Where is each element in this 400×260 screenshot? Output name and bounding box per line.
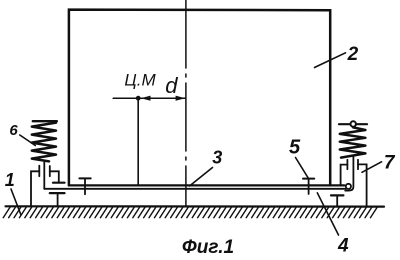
roller circle xyxy=(346,184,351,189)
left inner clamp finger xyxy=(49,166,51,176)
dimension line d xyxy=(113,97,185,99)
container 2 outline xyxy=(69,10,330,186)
leader 4 xyxy=(317,193,338,235)
svg-text:4: 4 xyxy=(337,236,349,257)
left inner clamp xyxy=(50,171,59,181)
left bolt stem xyxy=(84,178,86,194)
center of mass vertical line xyxy=(137,98,139,185)
svg-text:6: 6 xyxy=(9,122,18,139)
svg-text:2: 2 xyxy=(347,44,359,65)
left bolt bar xyxy=(79,177,90,179)
leader 1 xyxy=(11,189,21,215)
spring 7 coil xyxy=(340,127,366,157)
right outer bracket leg xyxy=(358,164,367,206)
svg-text:1: 1 xyxy=(5,170,15,190)
spring 6 top bar xyxy=(33,120,57,122)
svg-text:Фиг.1: Фиг.1 xyxy=(182,237,234,258)
leader 2 xyxy=(315,53,346,68)
left tee stem xyxy=(57,193,59,206)
ground line 1 xyxy=(6,205,385,208)
spring 7 pin circle xyxy=(351,121,356,126)
platform 3 bottom line xyxy=(44,188,346,190)
svg-text:3: 3 xyxy=(212,148,222,168)
ground hatching xyxy=(3,207,377,217)
right tee stem xyxy=(336,195,338,206)
left outer bracket finger xyxy=(38,166,40,177)
left clamp foot bar xyxy=(53,182,65,184)
svg-text:7: 7 xyxy=(384,152,396,173)
right inner bracket finger xyxy=(346,160,348,169)
left tee below platform xyxy=(50,192,65,194)
center of mass dot xyxy=(136,96,141,101)
leader 3 xyxy=(190,168,213,187)
spring 6 rod xyxy=(43,161,45,189)
right outer bracket finger xyxy=(357,160,359,169)
left outer bracket xyxy=(31,171,39,206)
arrowhead right xyxy=(176,96,186,101)
right inner bracket xyxy=(341,165,348,185)
leader 6 xyxy=(20,135,36,146)
spring 6 coil xyxy=(32,123,56,162)
svg-text:d: d xyxy=(165,73,178,98)
right tee below platform xyxy=(331,194,343,196)
svg-text:Ц.М: Ц.М xyxy=(124,71,156,90)
spring 7 rod with hook xyxy=(345,156,353,190)
right bolt bar xyxy=(303,178,314,180)
arrowhead left xyxy=(141,96,151,101)
spring 7 top bar xyxy=(339,123,367,125)
right bolt stem xyxy=(308,179,310,194)
leader 5 xyxy=(296,158,309,179)
platform 3 top line xyxy=(69,184,344,186)
leader 7 xyxy=(362,162,382,173)
centerline (axis) xyxy=(185,0,187,206)
svg-text:5: 5 xyxy=(289,136,301,158)
